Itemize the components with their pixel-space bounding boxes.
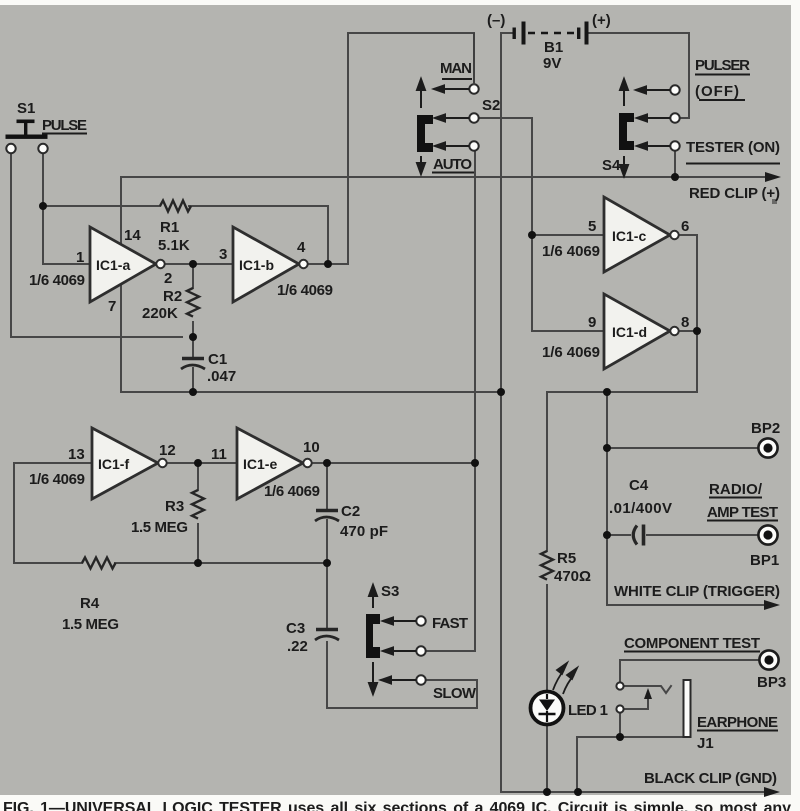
- wire R3 bottom lead: [197, 524, 199, 563]
- wire S3 common up: [426, 650, 475, 652]
- capacitor C1: [181, 359, 205, 370]
- svg-text:BP3: BP3: [757, 674, 786, 691]
- svg-text:IC1-e: IC1-e: [243, 456, 277, 472]
- svg-text:R2: R2: [163, 288, 182, 305]
- svg-text:C3: C3: [286, 620, 305, 637]
- wire R1 feedback left: [43, 205, 160, 207]
- junction S4 / red clip rail: [671, 173, 679, 181]
- svg-text:(–): (–): [487, 12, 505, 29]
- svg-text:S1: S1: [17, 100, 35, 117]
- junction ground rail / battery minus: [497, 388, 505, 396]
- svg-text:C4: C4: [629, 477, 649, 494]
- svg-text:220K: 220K: [142, 305, 178, 322]
- svg-text:470Ω: 470Ω: [554, 568, 591, 585]
- svg-text:1/6 4069: 1/6 4069: [264, 483, 320, 500]
- svg-text:S3: S3: [381, 583, 399, 600]
- arrowhead white clip: [764, 600, 780, 610]
- label AMP TEST: [707, 504, 778, 521]
- capacitor C3: [315, 630, 339, 641]
- svg-text:BP2: BP2: [751, 420, 780, 437]
- wire white clip trigger: [607, 604, 768, 606]
- svg-text:R3: R3: [165, 498, 184, 515]
- svg-text:AUTO: AUTO: [433, 156, 472, 173]
- resistor R5: [541, 551, 553, 580]
- junction R3 / R4 line: [194, 559, 202, 567]
- label PULSE: [42, 117, 87, 134]
- wire R4 line left: [14, 562, 82, 564]
- resistor R4: [82, 558, 116, 569]
- svg-text:5: 5: [588, 218, 596, 235]
- svg-text:7: 7: [108, 298, 116, 315]
- svg-text:COMPONENT TEST: COMPONENT TEST: [624, 635, 760, 652]
- battery B1: [513, 22, 589, 45]
- label EARPHONE: [697, 714, 778, 731]
- inverter IC1-b: [233, 227, 308, 302]
- svg-text:IC1-b: IC1-b: [239, 257, 274, 273]
- svg-text:IC1-a: IC1-a: [96, 257, 130, 273]
- wire J1 down to sleeve rail: [619, 713, 621, 737]
- svg-text:IC1-f: IC1-f: [98, 456, 129, 472]
- wire C3 top lead: [326, 563, 328, 627]
- wire C3 bottom lead: [326, 642, 328, 708]
- svg-text:R5: R5: [557, 550, 576, 567]
- svg-text:C2: C2: [341, 503, 360, 520]
- wire IC1-f input: [14, 463, 92, 563]
- label TESTER (ON): [686, 139, 780, 164]
- wire output branch down: [606, 392, 608, 605]
- junction auto line / IC1-e output: [471, 459, 479, 467]
- junction IC1-a output / R2: [189, 260, 197, 268]
- arrowhead black clip: [764, 787, 780, 797]
- svg-text:RADIO/: RADIO/: [709, 481, 763, 498]
- wire battery negative down: [501, 33, 768, 792]
- svg-text:SLOW: SLOW: [433, 685, 477, 702]
- svg-text:10: 10: [303, 439, 320, 456]
- wire IC1-a pin 14 / pin 7 supply line: [120, 177, 122, 392]
- svg-text:RED CLIP (+): RED CLIP (+): [689, 185, 780, 202]
- junction J1 / black clip rail: [574, 788, 582, 796]
- wire R5 to LED: [546, 585, 548, 692]
- inverter IC1-c: [604, 197, 679, 272]
- wire gate outputs down to output rail: [547, 331, 697, 392]
- wire IC1-b output up to top: [348, 33, 474, 264]
- wire S2 common right: [478, 118, 532, 235]
- wire battery positive to S4: [589, 33, 689, 118]
- svg-text:S4: S4: [602, 157, 621, 174]
- wire IC1-e output line: [311, 462, 475, 464]
- svg-text:J1: J1: [697, 735, 714, 752]
- wire C2 bottom lead: [326, 520, 328, 563]
- svg-text:9: 9: [588, 314, 596, 331]
- wire R2 top lead: [192, 264, 194, 288]
- wire IC1-c input: [532, 234, 604, 236]
- inverter IC1-f: [92, 428, 167, 499]
- svg-text:R1: R1: [160, 219, 179, 236]
- inverter IC1-a: [90, 227, 165, 302]
- svg-text:S2: S2: [482, 97, 500, 114]
- wire J1 sleeve rail: [577, 737, 686, 792]
- wire IC1-c output: [678, 235, 697, 331]
- svg-text:IC1-d: IC1-d: [612, 324, 647, 340]
- pushbutton switch S1: [6, 120, 48, 154]
- svg-text:PULSE: PULSE: [42, 117, 87, 134]
- junction S2 common / IC inputs: [528, 231, 536, 239]
- label (OFF): [695, 83, 745, 100]
- paper speck: [772, 199, 777, 204]
- svg-text:EARPHONE: EARPHONE: [697, 714, 778, 731]
- wire J1 switch contact: [624, 696, 648, 709]
- svg-text:12: 12: [159, 442, 176, 459]
- svg-text:.22: .22: [287, 638, 308, 655]
- svg-text:1.5 MEG: 1.5 MEG: [62, 616, 119, 633]
- junction C4 line: [603, 531, 611, 539]
- svg-text:1/6 4069: 1/6 4069: [29, 272, 85, 289]
- label COMPONENT TEST: [624, 635, 760, 652]
- svg-text:C1: C1: [208, 351, 227, 368]
- binding post BP1: [758, 525, 777, 544]
- svg-text:470 pF: 470 pF: [340, 523, 388, 540]
- wire S4 bottom terminal down: [674, 150, 676, 177]
- svg-text:14: 14: [124, 227, 141, 244]
- junction C1 ground: [189, 388, 197, 396]
- switch S3: [366, 585, 426, 694]
- junction IC1-c/IC1-d outputs: [693, 327, 701, 335]
- svg-text:.047: .047: [207, 368, 236, 385]
- wire node A to IC1-a pin 1: [43, 263, 90, 265]
- svg-text:1/6 4069: 1/6 4069: [277, 282, 333, 299]
- junction C2 / C3: [323, 559, 331, 567]
- wire to C4: [607, 534, 630, 536]
- svg-text:BLACK CLIP (GND): BLACK CLIP (GND): [644, 770, 777, 787]
- wire IC1-a output to IC1-b input: [165, 263, 233, 265]
- wire IC1-f output to IC1-e input: [167, 462, 237, 464]
- wire IC1-d output: [678, 330, 697, 332]
- junction node A (S1/R1): [39, 202, 47, 210]
- capacitor C2: [315, 511, 339, 522]
- svg-text:BP1: BP1: [750, 552, 779, 569]
- wire S1 left terminal down: [11, 153, 182, 337]
- resistor R2: [187, 288, 199, 317]
- junction IC1-e output / C2: [323, 459, 331, 467]
- resistor R3: [192, 490, 204, 519]
- svg-text:IC1-c: IC1-c: [612, 228, 646, 244]
- junction J1 sleeve line: [616, 733, 624, 741]
- wire IC1-b output: [308, 263, 348, 265]
- svg-text:5.1K: 5.1K: [158, 237, 190, 254]
- inverter IC1-d: [604, 294, 679, 369]
- wire output rail to R5: [546, 392, 548, 551]
- switch S4: [619, 79, 680, 176]
- earphone jack J1: [616, 680, 690, 737]
- binding post BP2: [758, 438, 777, 457]
- arrowhead red clip: [765, 172, 781, 182]
- svg-text:MAN: MAN: [440, 60, 472, 77]
- LED LED1: [531, 663, 578, 725]
- inverter IC1-e: [237, 428, 312, 499]
- svg-text:.01/400V: .01/400V: [609, 500, 672, 517]
- label PULSER: [695, 57, 750, 75]
- svg-text:WHITE CLIP (TRIGGER): WHITE CLIP (TRIGGER): [614, 583, 780, 600]
- switch S2: [417, 33, 479, 174]
- svg-text:9V: 9V: [543, 55, 561, 72]
- wire S3 slow terminal: [327, 680, 477, 708]
- svg-text:(OFF): (OFF): [695, 83, 739, 100]
- wire auto line to S3 common: [426, 463, 475, 651]
- label AUTO: [432, 156, 474, 173]
- svg-text:TESTER (ON): TESTER (ON): [686, 139, 780, 156]
- svg-text:FAST: FAST: [432, 615, 468, 632]
- resistor R1: [160, 201, 191, 212]
- svg-text:1/6 4069: 1/6 4069: [542, 344, 600, 361]
- junction IC1-b output: [324, 260, 332, 268]
- wire to BP2: [607, 447, 757, 449]
- svg-text:FIG. 1—UNIVERSAL LOGIC TESTER: FIG. 1—UNIVERSAL LOGIC TESTER uses all s…: [3, 800, 791, 811]
- junction IC1-f output / R3: [194, 459, 202, 467]
- wire R4 line right: [115, 562, 327, 564]
- wire C1 bottom lead: [192, 368, 194, 392]
- svg-text:AMP TEST: AMP TEST: [707, 504, 778, 521]
- wire J1 tip contact: [624, 686, 671, 693]
- wire battery negative stub: [501, 32, 513, 34]
- svg-text:8: 8: [681, 314, 689, 331]
- label MAN: [440, 60, 472, 79]
- svg-text:1.5 MEG: 1.5 MEG: [131, 519, 188, 536]
- wire ground rail left: [121, 391, 501, 393]
- svg-text:1/6 4069: 1/6 4069: [29, 471, 85, 488]
- wire S1 right terminal to node A: [42, 153, 44, 264]
- junction BP2 line: [603, 444, 611, 452]
- wire component test to BP3: [620, 660, 759, 682]
- junction gate outputs / BP2 branch: [603, 388, 611, 396]
- svg-text:4: 4: [297, 239, 306, 256]
- svg-text:1: 1: [76, 249, 84, 266]
- svg-text:R4: R4: [80, 595, 100, 612]
- wire C2 top lead: [326, 463, 328, 509]
- wire LED cathode to ground rail: [546, 724, 548, 792]
- svg-text:PULSER: PULSER: [695, 57, 750, 74]
- wire R3 top lead: [197, 463, 199, 490]
- wire C4 to BP1: [647, 534, 757, 536]
- svg-text:1/6 4069: 1/6 4069: [542, 243, 600, 260]
- wire S2 to IC1-d input: [532, 235, 604, 331]
- svg-text:B1: B1: [544, 39, 563, 56]
- wire positive rail RED CLIP: [121, 176, 770, 178]
- wire S2 AUTO terminal down: [474, 150, 476, 463]
- wire R2 bottom to C1 top: [192, 322, 194, 357]
- junction R2 bottom / C1: [189, 333, 197, 341]
- svg-text:2: 2: [164, 270, 172, 287]
- svg-text:11: 11: [211, 446, 227, 463]
- capacitor C4: [633, 525, 643, 546]
- svg-text:(+): (+): [592, 12, 611, 29]
- svg-text:13: 13: [68, 446, 85, 463]
- svg-text:3: 3: [219, 246, 227, 263]
- svg-text:6: 6: [681, 218, 689, 235]
- wire R1 feedback right: [189, 206, 328, 264]
- svg-text:LED 1: LED 1: [568, 702, 608, 719]
- binding post BP3: [759, 650, 778, 669]
- label RADIO/: [709, 481, 763, 498]
- junction LED / black clip rail: [543, 788, 551, 796]
